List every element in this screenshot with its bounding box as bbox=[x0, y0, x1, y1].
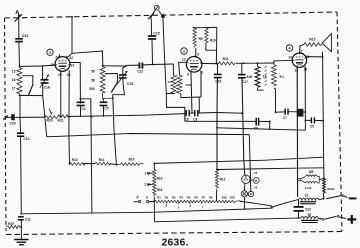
terminal plus bbox=[347, 215, 356, 224]
wire tube2 anode to junction bbox=[202, 63, 216, 65]
wire top feed horizontal bbox=[72, 51, 103, 66]
svg-text:3′: 3′ bbox=[136, 195, 139, 199]
capacitor C13 bbox=[77, 102, 86, 111]
wire R9 R10 top bar bbox=[193, 26, 217, 28]
wire rail3b bbox=[217, 128, 305, 130]
wire R16 bottom to chain bbox=[153, 197, 155, 202]
transformer OPT output bbox=[298, 170, 320, 190]
svg-text:R2: R2 bbox=[165, 195, 169, 199]
svg-text:A20: A20 bbox=[246, 75, 252, 79]
tube V2 badge 2 bbox=[181, 48, 187, 54]
svg-text:4: 4 bbox=[288, 46, 291, 51]
terminal circle gram input bbox=[154, 5, 159, 10]
svg-text:21: 21 bbox=[51, 63, 55, 67]
switch S1a blade bbox=[29, 85, 33, 95]
svg-text:23: 23 bbox=[70, 63, 74, 67]
capacitor C31 bbox=[15, 34, 28, 42]
svg-text:4: 4 bbox=[165, 204, 167, 208]
wire osc feed down bbox=[113, 95, 117, 165]
node junction avc x91 bbox=[91, 116, 93, 118]
svg-text:R11: R11 bbox=[223, 57, 229, 61]
wire C16b bottom to avc dot bbox=[216, 78, 218, 113]
svg-text:R5: R5 bbox=[187, 195, 191, 199]
wire C31 to coil bbox=[18, 43, 21, 67]
wire avc through caps bbox=[185, 113, 217, 114]
speaker bbox=[322, 34, 331, 52]
node junction rail1 left bbox=[20, 213, 22, 215]
wire top feed vertical from border bbox=[71, 17, 73, 54]
svg-text:30: 30 bbox=[308, 213, 312, 217]
node junction choke30 right bbox=[319, 218, 321, 220]
lamp dial2 bbox=[248, 191, 254, 196]
svg-text:24: 24 bbox=[55, 55, 59, 59]
node switch contact S1a bbox=[32, 84, 34, 86]
svg-text:R3: R3 bbox=[172, 195, 176, 199]
node junction avc lamp bus bbox=[241, 112, 243, 114]
switch S2a mains bbox=[271, 200, 298, 209]
svg-text:C11: C11 bbox=[25, 217, 31, 221]
resistor R9 bbox=[193, 28, 203, 48]
node junction ant top bbox=[19, 66, 21, 68]
wire line A bbox=[154, 157, 323, 163]
wire ant coil bottom down bbox=[19, 95, 21, 117]
svg-text:2636.: 2636. bbox=[162, 237, 189, 248]
capacitor C9 bbox=[193, 110, 198, 122]
wire IFT2 left bottom hook bbox=[258, 88, 264, 90]
wire tube4 pin16 down bbox=[304, 67, 306, 130]
svg-text:C10: C10 bbox=[23, 137, 29, 141]
wire tube2 pin8 down bbox=[191, 72, 192, 113]
node junction anode x322 bbox=[322, 56, 324, 58]
svg-text:C17: C17 bbox=[242, 80, 248, 84]
node border junction bbox=[71, 16, 73, 18]
svg-text:C5: C5 bbox=[104, 107, 108, 111]
svg-text:22: 22 bbox=[69, 56, 73, 60]
wire OPT right to B+ bbox=[319, 178, 324, 179]
svg-text:R23: R23 bbox=[230, 195, 236, 199]
wire C28 to x305 bbox=[303, 111, 305, 113]
wire gram left lead bbox=[151, 10, 155, 35]
node junction row x154 bbox=[153, 162, 155, 164]
capacitor C28 block with value bbox=[297, 109, 304, 117]
wire stem to ground bbox=[20, 227, 22, 239]
resistor R25 bbox=[6, 222, 21, 229]
switch S1b blade bbox=[111, 83, 117, 93]
svg-text:6: 6 bbox=[201, 71, 203, 75]
node junction choke31 right bbox=[323, 198, 325, 200]
wire avc line right bbox=[217, 112, 242, 115]
resistor chain R1-R8 heater dropper bbox=[154, 195, 238, 209]
wire line B bbox=[217, 168, 324, 170]
svg-text:500: 500 bbox=[89, 87, 95, 91]
wire C17 bottom lamp bus bbox=[242, 78, 245, 175]
wire C17 top lead bbox=[241, 63, 243, 74]
node junction avc x20 bbox=[19, 117, 21, 119]
wire bus drop right bbox=[198, 97, 200, 113]
tube V1 envelope bbox=[55, 56, 71, 73]
node junction R17 top bbox=[216, 169, 218, 171]
node R9 top bbox=[193, 27, 195, 29]
wire IFT2 right top to tube4 bbox=[274, 60, 292, 65]
transformer IFT2 bbox=[255, 63, 284, 87]
node junction x305 c6b bbox=[305, 120, 307, 122]
node junction IFT2 left top bbox=[257, 62, 259, 64]
wire avc x20 down to C10 bbox=[19, 117, 22, 132]
inductor L1 antenna coil bbox=[17, 68, 22, 96]
node junction R11 left bbox=[215, 63, 217, 65]
svg-text:2: 2 bbox=[183, 49, 186, 54]
wire tube2 pin6 down bbox=[200, 72, 202, 97]
resistor R13 bbox=[304, 38, 323, 47]
wire rail1 bbox=[21, 208, 271, 214]
wire avc line left to C20 bbox=[20, 116, 45, 118]
svg-text:9 kΩ: 9 kΩ bbox=[305, 186, 312, 190]
svg-text:R13: R13 bbox=[309, 38, 315, 42]
svg-text:AB: AB bbox=[309, 170, 314, 174]
wire pin25 down bbox=[60, 71, 62, 117]
svg-text:C31: C31 bbox=[22, 34, 29, 38]
svg-text:C12: C12 bbox=[137, 70, 143, 74]
wire R10 bottom jog bbox=[206, 43, 217, 50]
node junction rail3b x217 bbox=[216, 127, 218, 129]
node junction x322 C6b bbox=[322, 120, 324, 122]
capacitor C8 bbox=[185, 110, 190, 122]
wire R11 junction stub bbox=[216, 62, 218, 64]
svg-text:16: 16 bbox=[12, 78, 16, 82]
wire x305 to C6b to x322 bbox=[305, 119, 323, 121]
svg-text:→26: →26 bbox=[252, 171, 258, 175]
lamp V3 rectifier bbox=[242, 171, 258, 183]
wire C14 top lead bbox=[102, 98, 104, 102]
node junction row x116 bbox=[115, 164, 117, 166]
svg-text:58: 58 bbox=[91, 78, 95, 82]
capacitor C10 bbox=[17, 133, 30, 141]
svg-text:7: 7 bbox=[202, 205, 204, 209]
capacitor C17 bbox=[238, 75, 252, 85]
svg-text:R15: R15 bbox=[157, 177, 163, 181]
node junction osc coil top bbox=[102, 65, 104, 67]
wire gram right lead arrow bbox=[159, 11, 165, 51]
svg-text:10: 10 bbox=[263, 75, 267, 79]
inductor L30 choke bbox=[300, 213, 318, 223]
chassis dashed border left bbox=[5, 18, 7, 231]
lamp dial bbox=[241, 185, 257, 197]
wire choke31 to junction bbox=[319, 199, 324, 200]
svg-text:G: G bbox=[255, 179, 258, 183]
wire C16 bottom lead bbox=[42, 83, 44, 95]
svg-text:15: 15 bbox=[12, 70, 16, 74]
svg-text:C18: C18 bbox=[127, 82, 133, 86]
wire C32 bottom lead bbox=[298, 211, 300, 218]
node junction avc C16b bbox=[216, 112, 218, 114]
svg-text:14: 14 bbox=[288, 56, 292, 60]
svg-text:C20: C20 bbox=[10, 122, 16, 126]
node junction x305 avc bbox=[304, 111, 306, 113]
wire Lmid bus bbox=[185, 120, 270, 122]
connector slash gram bbox=[148, 13, 154, 19]
svg-text:3: 3 bbox=[146, 195, 148, 199]
wire speaker down lead bbox=[321, 52, 323, 57]
wire avc line mid bbox=[67, 114, 185, 117]
wire C14 bottom lead bbox=[103, 106, 105, 117]
svg-text:1: 1 bbox=[49, 50, 52, 55]
svg-text:C32: C32 bbox=[305, 207, 311, 211]
svg-text:12: 12 bbox=[182, 57, 186, 61]
node junction Lmid x270 bbox=[269, 121, 271, 123]
terminal 3 bbox=[146, 195, 154, 202]
wire antenna lead bbox=[18, 21, 20, 38]
svg-text:C16: C16 bbox=[215, 79, 221, 83]
wire IFT2 right bottom down bbox=[274, 88, 276, 112]
wire R24 bottom to junction bbox=[323, 196, 326, 199]
svg-text:5: 5 bbox=[178, 205, 180, 209]
wire C16b top lead bbox=[217, 64, 219, 75]
resistor R10b row3 bbox=[116, 157, 143, 165]
node R10 top bbox=[206, 27, 208, 29]
wire Lmid drop to rail3b bbox=[269, 122, 271, 130]
resistor R11 bbox=[219, 57, 236, 65]
tube V2 envelope bbox=[186, 55, 202, 72]
resistor R10 bbox=[205, 28, 216, 43]
label tap 2 bbox=[144, 183, 152, 187]
wire B+ vertical x322 bbox=[323, 57, 324, 178]
wire C13 top lead bbox=[79, 99, 81, 104]
wire row1 to row2 bbox=[83, 163, 95, 165]
wire C13 bottom lead bbox=[80, 106, 82, 117]
node junction R25 bbox=[20, 226, 22, 228]
node junction C16 top bbox=[42, 65, 44, 67]
node junction OPT B+ bbox=[323, 177, 325, 179]
wire tube4 anode right bbox=[306, 56, 322, 58]
capacitor C6 series bbox=[254, 118, 259, 131]
wire osc tap to switch bbox=[105, 74, 118, 82]
node junction C15 anode line bbox=[152, 64, 154, 66]
svg-text:1: 1 bbox=[144, 171, 146, 175]
svg-text:R18: R18 bbox=[186, 83, 192, 87]
resistor R14 row2 bbox=[95, 158, 111, 165]
chassis dashed border top bbox=[5, 12, 338, 18]
svg-text:C4: C4 bbox=[81, 107, 85, 111]
resistor R12 row1 bbox=[70, 158, 86, 166]
capacitor C11 psu bbox=[18, 217, 31, 222]
chassis dashed border right bbox=[337, 12, 342, 231]
variable capacitor C18 bbox=[117, 71, 134, 86]
svg-text:C15: C15 bbox=[153, 31, 159, 35]
node junction coil bottom bbox=[19, 95, 21, 97]
svg-text:R22: R22 bbox=[222, 195, 228, 199]
transformer IFT1 bbox=[171, 64, 182, 93]
wire row2 to junction bbox=[110, 163, 117, 166]
switch S3b to plus bbox=[318, 216, 346, 221]
svg-text:59: 59 bbox=[91, 70, 95, 74]
svg-text:2: 2 bbox=[144, 183, 146, 187]
wire rail3 drop to lamp bbox=[249, 135, 251, 192]
svg-text:300Ω: 300Ω bbox=[327, 187, 335, 191]
wire pin22 to top feed corner bbox=[67, 53, 72, 58]
chassis dashed border bottom bbox=[6, 232, 342, 235]
wire grid line to tube1 pin21 bbox=[20, 65, 55, 66]
wire tube2 top lead bbox=[195, 48, 197, 56]
inductor L2 oscillator coil bbox=[100, 66, 105, 96]
node junction pin25 avc bbox=[60, 116, 62, 118]
wire anode line to C12 bbox=[126, 64, 139, 66]
svg-text:17: 17 bbox=[12, 86, 16, 90]
wire osc coil bottom bbox=[103, 95, 113, 99]
tube V4 envelope bbox=[292, 52, 307, 68]
svg-text:R21: R21 bbox=[58, 119, 64, 123]
node junction C32 rail2 bbox=[298, 217, 300, 219]
svg-text:5¼: 5¼ bbox=[280, 75, 285, 79]
wire tube4 grid top bbox=[300, 45, 304, 53]
capacitor C14 bbox=[100, 102, 109, 110]
node junction coil bottom x112 bbox=[112, 97, 114, 99]
label tap 1 bbox=[144, 171, 152, 175]
wire antenna section bottom bus bbox=[20, 94, 43, 96]
node switch pivot bbox=[28, 95, 30, 97]
svg-text:C16: C16 bbox=[44, 86, 50, 90]
resistor R24 300ohm bbox=[323, 178, 335, 196]
svg-text:31: 31 bbox=[305, 193, 309, 197]
resistor R21 bbox=[58, 115, 71, 123]
wire C12 to IFT1 bbox=[142, 64, 173, 65]
svg-text:R16: R16 bbox=[157, 188, 163, 192]
wire IFT1 right bottom bus bbox=[181, 93, 201, 97]
ground chassis earth bbox=[14, 240, 28, 245]
wire IFT1 left bottom down bbox=[166, 92, 174, 94]
svg-text:R20: R20 bbox=[47, 119, 53, 123]
node junction row start bbox=[69, 163, 71, 165]
wire lamp bus segments bbox=[243, 183, 245, 209]
wire x217 avc down to R17 bbox=[216, 113, 218, 170]
svg-text:R10: R10 bbox=[129, 157, 135, 161]
wire C10 down to rail1 bbox=[20, 137, 23, 214]
node junction lamp rail1 bbox=[244, 208, 246, 210]
node junction C13 top bbox=[79, 98, 81, 100]
svg-text:15: 15 bbox=[295, 68, 299, 72]
svg-text:8: 8 bbox=[187, 72, 189, 76]
tube V4 badge 4 bbox=[286, 45, 292, 51]
wire tap to switch contact bbox=[22, 76, 33, 84]
wire pin24 stub bbox=[59, 54, 61, 57]
svg-text:R10: R10 bbox=[210, 39, 216, 43]
wire screen feed down to junction bbox=[215, 50, 217, 63]
svg-text:C7: C7 bbox=[283, 116, 287, 120]
capacitor C6b bbox=[310, 117, 314, 128]
wire rail3 bbox=[47, 134, 250, 137]
svg-text:R6: R6 bbox=[194, 195, 198, 199]
node switch contact S1b bbox=[117, 81, 119, 83]
capacitor C12 series in anode line bbox=[137, 63, 143, 74]
wire C18 top lead bbox=[123, 66, 126, 74]
svg-text:001: 001 bbox=[297, 113, 302, 117]
connector arrowhead bbox=[161, 13, 166, 18]
resistor R20 potentiometer bbox=[45, 109, 58, 123]
node junction C7 line bbox=[275, 111, 277, 113]
wire chain to switch bbox=[239, 201, 272, 206]
node A antenna terminal bbox=[15, 10, 23, 22]
capacitor C7 bbox=[283, 109, 288, 120]
svg-text:51: 51 bbox=[168, 80, 172, 84]
svg-text:→26: →26 bbox=[252, 185, 258, 189]
wire C11 to R25 node bbox=[20, 220, 22, 227]
svg-text:R12: R12 bbox=[72, 158, 78, 162]
wire anode line to IFT2 bbox=[236, 62, 274, 64]
capacitor C32 bbox=[294, 207, 311, 212]
wire pin26 down to resistor row bbox=[68, 71, 71, 163]
wire C7 line left bbox=[276, 111, 286, 113]
svg-text:6: 6 bbox=[190, 204, 192, 208]
wire C13 jog to avc bbox=[80, 99, 92, 213]
inductor L31 choke bbox=[298, 193, 318, 203]
lamp G bbox=[250, 178, 259, 184]
wire rail2 bbox=[154, 202, 300, 222]
wire pin23 down to C4 bbox=[69, 63, 80, 99]
terminal minus bbox=[349, 197, 357, 199]
node junction C18 anode line bbox=[125, 65, 127, 67]
wire C32 top lead bbox=[298, 200, 300, 207]
wire R17 bottom to chain bbox=[216, 189, 218, 201]
wire C16 top lead bbox=[42, 66, 44, 79]
wire bar down right side bbox=[216, 27, 218, 50]
capacitor C15 bbox=[148, 31, 160, 39]
svg-text:9: 9 bbox=[197, 52, 199, 56]
node junction C17 top bbox=[243, 62, 245, 64]
wire IFT1 right top to tube2 bbox=[179, 62, 187, 75]
capacitor C16b bbox=[214, 74, 222, 83]
svg-text:R12: R12 bbox=[220, 177, 226, 181]
svg-text:C5: C5 bbox=[310, 125, 314, 129]
svg-text:7: 7 bbox=[301, 49, 303, 53]
svg-text:R7: R7 bbox=[202, 195, 206, 199]
wire x164 down to IFT1 bottom bbox=[164, 50, 185, 121]
wire tube4 pin15 down bbox=[296, 67, 298, 197]
svg-text:R14: R14 bbox=[99, 158, 105, 162]
node junction x92 row bbox=[90, 163, 92, 165]
svg-text:R8: R8 bbox=[209, 195, 213, 199]
terminal 3prime bbox=[133, 195, 140, 202]
wire C7 to C28 bbox=[288, 111, 297, 113]
svg-text:R25: R25 bbox=[8, 222, 14, 226]
switch S3a to minus bbox=[326, 195, 347, 199]
resistor R17 bbox=[215, 170, 225, 189]
wire C18 bottom lead bbox=[113, 78, 125, 94]
wire anode line start bbox=[103, 65, 126, 67]
wire C15 bottom to anode line bbox=[151, 39, 154, 64]
svg-text:R9: R9 bbox=[199, 37, 203, 41]
variable capacitor C16 bbox=[40, 75, 50, 90]
node gram border dot bbox=[150, 15, 152, 17]
capacitor C20 series block bbox=[3, 114, 20, 125]
wire heater bus x154 down bbox=[153, 163, 155, 169]
tube V1 badge 1 bbox=[47, 49, 53, 55]
node chain start bbox=[153, 201, 155, 203]
svg-text:R1: R1 bbox=[157, 195, 161, 199]
svg-text:R4: R4 bbox=[179, 195, 183, 199]
wire ant bus down to rail3 bbox=[43, 96, 47, 137]
resistor R15 R16 tapped bbox=[153, 169, 163, 195]
